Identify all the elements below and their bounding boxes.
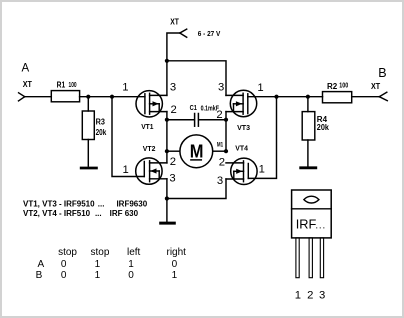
supply wire XT top — [167, 33, 180, 61]
connector XT A symbol — [19, 93, 25, 101]
capacitor C1 — [167, 114, 226, 127]
svg-text:6 - 27 V: 6 - 27 V — [198, 30, 221, 38]
bottom rail wire — [167, 179, 226, 199]
svg-text:2: 2 — [170, 156, 176, 168]
svg-text:3: 3 — [218, 82, 224, 94]
svg-text:1: 1 — [123, 164, 129, 176]
transistor VT2 (IRF510 n-channel) — [136, 158, 167, 184]
node junction gate drop — [110, 95, 114, 99]
svg-text:1: 1 — [257, 82, 263, 94]
package TO-220 outline — [292, 190, 332, 238]
package tab divider — [292, 208, 332, 210]
wire R2 to XT B — [352, 96, 380, 98]
svg-text:0: 0 — [61, 259, 67, 270]
package leg 2 — [309, 238, 312, 278]
ground below bridge — [159, 222, 176, 225]
svg-text:3: 3 — [217, 175, 223, 187]
node junction R3 — [86, 95, 90, 99]
svg-text:1: 1 — [295, 289, 301, 301]
svg-text:3: 3 — [170, 82, 176, 94]
package leg 3 — [320, 238, 323, 278]
svg-text:100: 100 — [69, 81, 77, 89]
svg-text:VT1, VT3 - IRF9510 ... IRF9: VT1, VT3 - IRF9510 ... IRF9630 — [23, 200, 148, 209]
wire A to R1 — [25, 96, 52, 98]
svg-text:1: 1 — [128, 259, 134, 270]
node junction C1 right — [224, 118, 228, 122]
resistor R1 — [51, 91, 79, 102]
node junction C1 left — [165, 118, 169, 122]
svg-text:R2: R2 — [327, 82, 338, 91]
node junction bottom rail — [165, 196, 169, 200]
svg-text:3: 3 — [169, 172, 175, 184]
wire R4 to ground — [307, 140, 309, 166]
wire VT4 gate up to node — [248, 97, 276, 179]
wire VT2 source to bottom rail — [166, 179, 168, 199]
svg-text:1: 1 — [95, 259, 101, 270]
wire VT1 source to C1 node — [166, 112, 168, 152]
svg-text:A: A — [38, 259, 45, 270]
wire R1 to VT1 gate — [80, 96, 145, 98]
connector XT B symbol — [379, 92, 387, 101]
svg-text:2: 2 — [216, 109, 222, 121]
svg-text:VT3: VT3 — [237, 124, 250, 132]
svg-text:2: 2 — [219, 156, 225, 168]
svg-text:R3: R3 — [96, 117, 105, 126]
svg-text:100: 100 — [339, 82, 348, 90]
wire R3 stem top — [87, 97, 89, 111]
wire R3 to ground — [87, 140, 89, 167]
svg-text:A: A — [22, 63, 30, 75]
svg-text:2: 2 — [171, 104, 177, 116]
ground below R3 — [80, 167, 98, 170]
svg-text:20k: 20k — [317, 123, 330, 132]
svg-text:VT1: VT1 — [141, 124, 153, 131]
svg-text:3: 3 — [319, 289, 325, 301]
svg-text:B: B — [378, 66, 386, 80]
node junction motor left — [165, 149, 169, 153]
resistor R3 — [82, 111, 94, 140]
svg-text:0: 0 — [128, 270, 134, 281]
node junction top rail — [165, 59, 169, 63]
wire gate node to R2 — [277, 96, 323, 98]
package leg 1 — [296, 238, 299, 278]
wire VT3 source down — [225, 112, 227, 152]
resistor R2 — [323, 92, 352, 103]
svg-text:1: 1 — [172, 270, 178, 281]
ground below R4 — [299, 166, 317, 169]
svg-text:stop: stop — [91, 247, 110, 258]
wire motor node to VT2 drain — [166, 151, 168, 163]
transistor VT3 (IRF9510 p-channel) — [226, 90, 257, 116]
svg-text:1: 1 — [259, 164, 265, 176]
svg-text:IRF...: IRF... — [296, 217, 326, 232]
resistor R4 — [302, 112, 315, 140]
svg-text:VT4: VT4 — [235, 145, 248, 152]
svg-text:M1: M1 — [217, 142, 224, 149]
svg-text:left: left — [127, 247, 141, 258]
package mounting hole — [304, 196, 319, 203]
svg-text:R1: R1 — [57, 80, 66, 90]
transistor VT4 (IRF510 n-channel) — [226, 158, 257, 184]
wire gate drop to VT2 — [112, 97, 144, 177]
node junction motor right — [224, 149, 228, 153]
svg-text:2: 2 — [307, 289, 313, 301]
svg-text:VT2: VT2 — [143, 146, 156, 153]
svg-text:stop: stop — [58, 247, 77, 258]
svg-text:XT: XT — [371, 81, 381, 90]
svg-text:0: 0 — [61, 270, 67, 281]
wire R4 stem — [307, 97, 309, 112]
ground stem bridge — [166, 199, 168, 222]
node junction VT3/VT4 gates — [274, 95, 278, 99]
svg-text:B: B — [36, 270, 43, 281]
wire VT3 gate to node — [248, 96, 277, 98]
connector XT supply symbol — [180, 29, 187, 37]
svg-text:1: 1 — [122, 82, 128, 94]
svg-text:1: 1 — [95, 270, 101, 281]
svg-text:20k: 20k — [96, 127, 108, 137]
svg-text:C1: C1 — [190, 104, 198, 112]
svg-text:VT2, VT4 - IRF510 ... IRF 6: VT2, VT4 - IRF510 ... IRF 630 — [23, 209, 139, 218]
svg-text:right: right — [167, 247, 187, 258]
svg-text:0: 0 — [172, 259, 178, 270]
motor M1 — [167, 135, 226, 168]
node junction R4 — [306, 95, 310, 99]
top rail wire — [167, 61, 226, 96]
left rail to VT1 drain — [166, 61, 168, 96]
svg-text:XT: XT — [23, 80, 33, 89]
svg-text:XT: XT — [170, 17, 179, 27]
svg-text:M: M — [190, 141, 204, 162]
transistor VT1 (IRF9510 p-channel) — [136, 91, 167, 117]
